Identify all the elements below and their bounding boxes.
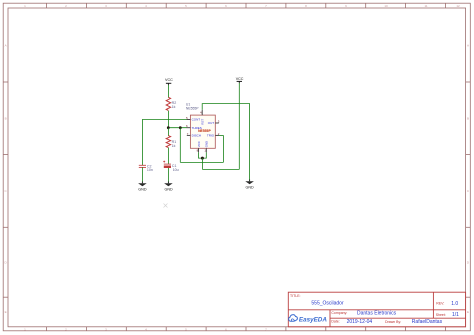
wire C1 bottom to ground <box>167 168 169 183</box>
svg-text:2019-12-04: 2019-12-04 <box>347 319 373 325</box>
svg-text:E: E <box>5 310 7 314</box>
svg-text:11: 11 <box>424 4 427 8</box>
svg-text:E: E <box>467 310 469 314</box>
wire junction to VCC rail <box>202 168 239 170</box>
cursor artifact <box>164 204 168 208</box>
junction node A <box>167 126 170 129</box>
junction node A / feedback tap <box>179 126 182 129</box>
wire VCC1 to R2 top <box>167 85 169 98</box>
wire feedback bottom horizontal <box>180 161 223 163</box>
ground GND (RST net, right) <box>245 179 254 189</box>
resistor R2 <box>166 97 176 110</box>
svg-text:B: B <box>467 117 469 121</box>
svg-text:EasyEDA: EasyEDA <box>299 317 327 324</box>
wire RST pin up and over to GND <box>202 104 249 182</box>
svg-text:REV:: REV: <box>436 302 444 306</box>
svg-text:Sheet:: Sheet: <box>436 313 446 317</box>
svg-text:Company:: Company: <box>331 311 347 315</box>
ground GND (under C1) <box>164 181 173 191</box>
svg-text:A: A <box>5 44 7 48</box>
svg-text:1k: 1k <box>172 144 176 148</box>
svg-text:DISCH: DISCH <box>192 134 201 138</box>
wire C2 bottom to ground <box>141 167 143 183</box>
svg-text:RST: RST <box>201 119 205 125</box>
svg-text:Dantas Eletronics: Dantas Eletronics <box>357 310 397 316</box>
svg-text:VCC: VCC <box>236 77 244 81</box>
svg-text:1.0: 1.0 <box>451 301 458 307</box>
power flag VCC (right rail) <box>236 77 244 83</box>
svg-text:TRIG: TRIG <box>207 134 215 138</box>
wire node A to THRES pin <box>168 127 187 129</box>
capacitor C2 <box>139 164 153 172</box>
svg-text:VCC: VCC <box>165 78 173 82</box>
wire to TRIG pin <box>219 134 224 136</box>
svg-text:A: A <box>467 44 469 48</box>
capacitor C1 (polarized) <box>163 161 179 173</box>
svg-text:555_Oscilador: 555_Oscilador <box>311 300 344 306</box>
svg-text:Date:: Date: <box>331 320 339 324</box>
svg-text:Drawn By:: Drawn By: <box>385 320 401 324</box>
resistor R1 <box>166 136 176 148</box>
wire feedback up to TRIG <box>222 135 224 162</box>
svg-text:OUT: OUT <box>208 121 215 125</box>
svg-text:CONT: CONT <box>192 118 201 122</box>
wire CONT pin to C2 <box>142 120 187 166</box>
svg-text:12: 12 <box>456 4 460 8</box>
svg-text:1k: 1k <box>172 105 176 109</box>
wire chip bottom pins join <box>199 152 207 158</box>
wire R2 bottom to node A <box>167 111 169 128</box>
wire node A to R1 top <box>167 128 169 136</box>
svg-text:GND: GND <box>138 187 147 191</box>
IC U1 NE555P (555 timer) <box>186 103 220 153</box>
svg-text:GND: GND <box>205 141 209 147</box>
svg-text:NE555P: NE555P <box>186 106 199 110</box>
power flag VCC (left rail) <box>165 78 173 85</box>
wire junction down <box>201 158 203 169</box>
wire THRES/TRIG feedback: node A down <box>179 128 181 163</box>
svg-text:TITLE:: TITLE: <box>290 294 301 298</box>
svg-text:10u: 10u <box>173 168 179 172</box>
svg-text:10: 10 <box>384 4 388 8</box>
ground GND (under C2) <box>138 181 147 191</box>
svg-text:NE555P: NE555P <box>198 129 211 133</box>
svg-text:RafaelDantas: RafaelDantas <box>412 319 443 325</box>
svg-text:VCC: VCC <box>197 141 201 147</box>
wire VCC2 rail down <box>238 83 240 169</box>
svg-text:1/1: 1/1 <box>452 312 459 318</box>
junction chip bottom <box>201 157 204 160</box>
wire R1 bottom to C1 <box>167 148 169 165</box>
svg-text:GND: GND <box>245 185 254 189</box>
title block (sheet template) <box>288 292 465 327</box>
svg-text:B: B <box>5 117 7 121</box>
svg-text:10n: 10n <box>147 168 153 172</box>
EasyEDA logo <box>289 315 328 324</box>
svg-text:GND: GND <box>164 187 173 191</box>
